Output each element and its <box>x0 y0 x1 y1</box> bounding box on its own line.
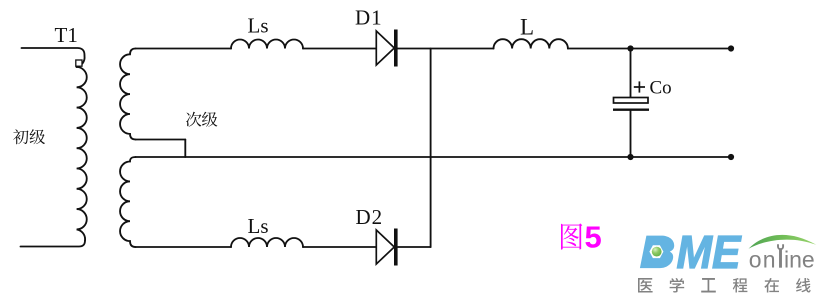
transformer T1 primary winding coil <box>77 67 87 240</box>
wire: capacitor Co bottom to lower rail <box>630 110 632 157</box>
output terminal (-) <box>728 154 734 160</box>
wire: L to capacitor node and positive output terminal <box>568 48 731 50</box>
capacitor Co negative plate <box>613 108 649 110</box>
logo letter B (custom blocky glyph with hexagon hole) <box>640 236 674 269</box>
T1 polarity square marker <box>76 60 82 66</box>
diode D2 <box>376 229 396 266</box>
transformer secondary upper winding <box>120 49 136 140</box>
svg-text:on: on <box>749 247 777 273</box>
diode D1 <box>376 30 396 67</box>
svg-text:ME: ME <box>677 226 743 278</box>
junction node: top rail to capacitor <box>627 45 633 51</box>
logo green swoosh arc <box>749 235 817 249</box>
svg-text:Co: Co <box>650 78 672 99</box>
wire: center-tap return rail to output <box>136 156 731 158</box>
caption 图5 <box>561 223 582 249</box>
svg-text:Ls: Ls <box>248 214 269 238</box>
wire: node to capacitor Co top <box>630 49 632 98</box>
label 次级 (secondary) <box>186 112 201 127</box>
transformer T1 primary top lead wire <box>22 48 85 67</box>
capacitor polarity plus sign <box>634 81 645 92</box>
svg-text:D2: D2 <box>356 205 384 229</box>
svg-text:T1: T1 <box>55 23 78 47</box>
output terminal (+) <box>728 45 734 51</box>
wire: center tap vertical jog <box>184 140 186 158</box>
inductor Ls (bottom) <box>231 238 303 247</box>
wire: D1 cathode to node, through junction to inductor L <box>398 48 494 50</box>
svg-text:ine: ine <box>784 247 815 273</box>
transformer secondary lower winding <box>120 157 136 247</box>
label 初级 (primary) <box>13 129 28 144</box>
junction node: bottom rail to capacitor <box>627 154 633 160</box>
wire: secondary bottom to Ls2 <box>136 246 231 248</box>
svg-text:L: L <box>520 15 534 40</box>
svg-text:D1: D1 <box>355 6 383 30</box>
wire: Ls1 to diode D1 <box>303 48 376 50</box>
svg-text:5: 5 <box>585 220 602 255</box>
transformer T1 primary bottom lead wire <box>21 240 86 246</box>
inductor L <box>494 39 568 48</box>
svg-text:Ls: Ls <box>248 14 269 38</box>
wire: secondary top to Ls1 <box>136 48 231 50</box>
logo wrench (stylized l) <box>778 244 783 268</box>
inductor Ls (top) <box>231 40 303 49</box>
logo tagline 医学工程在线 <box>638 278 653 292</box>
wire: D2 cathode to vertical riser <box>398 246 431 248</box>
capacitor Co positive plate <box>614 98 649 104</box>
wire: vertical joining D1 and D2 cathodes <box>430 49 432 248</box>
wire: upper secondary bottom lead to center tap <box>136 139 186 141</box>
wire: Ls2 to diode D2 <box>303 246 376 248</box>
